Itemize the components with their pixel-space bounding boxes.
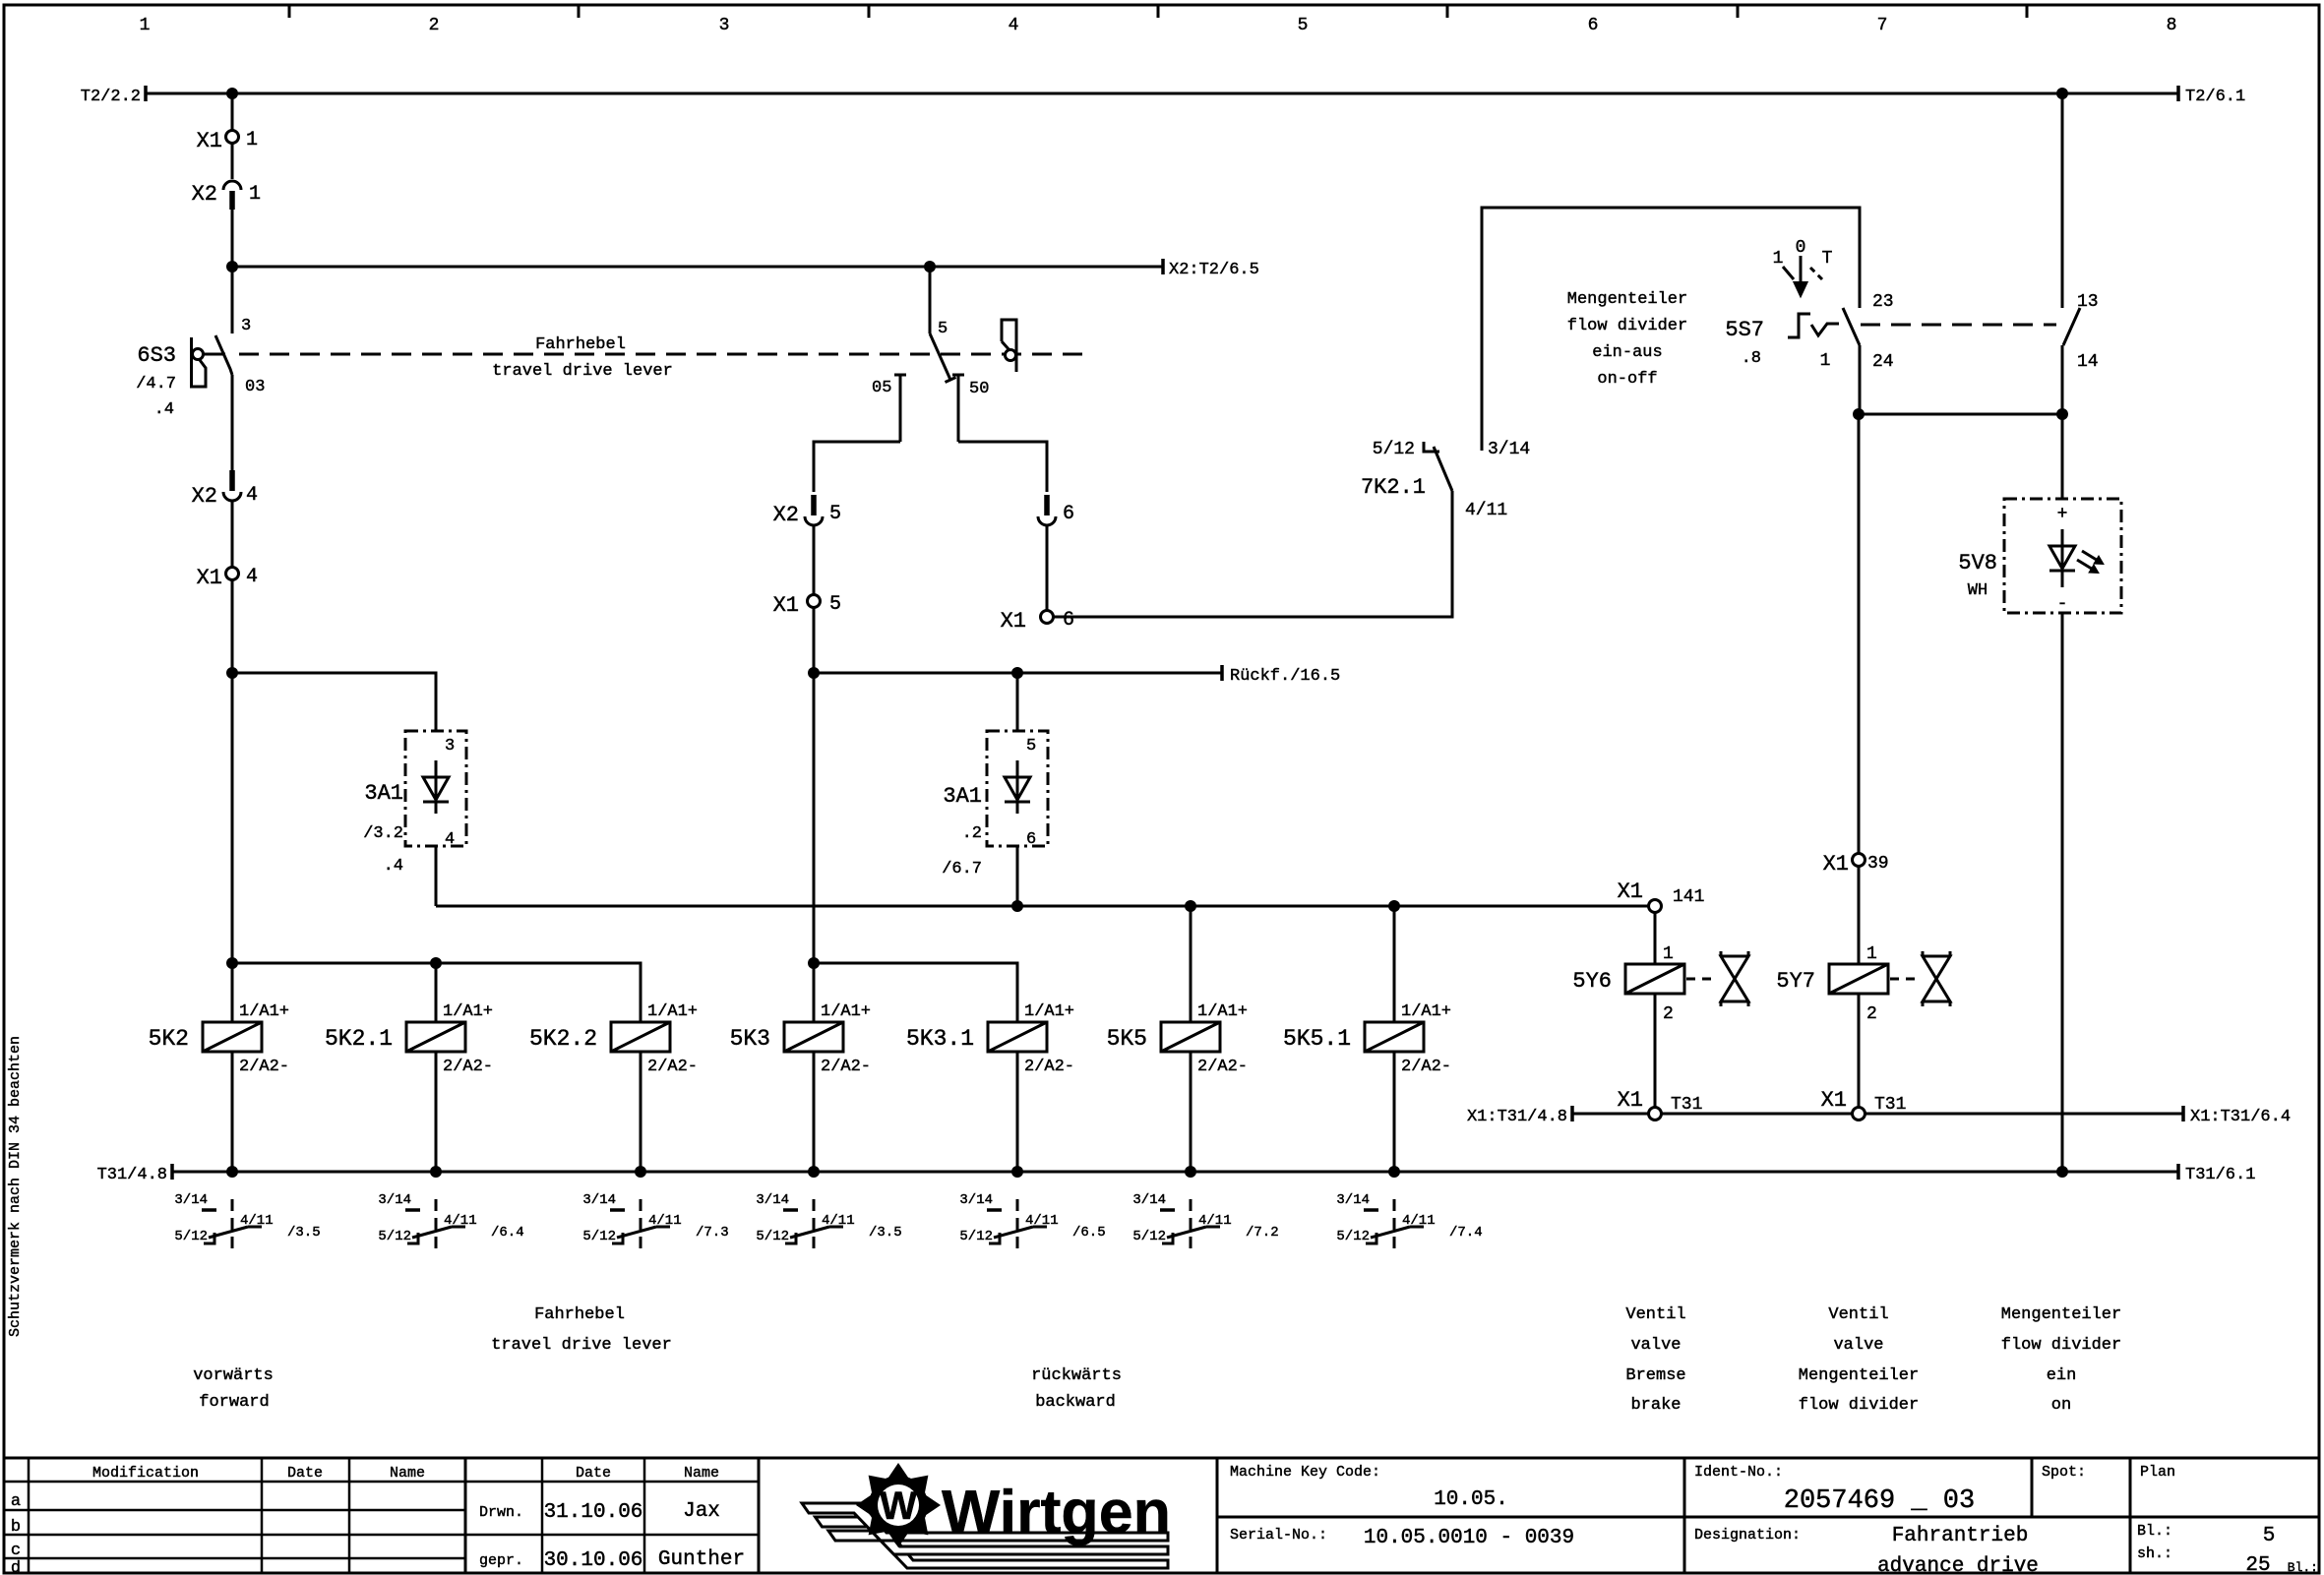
svg-text:Mengenteiler: Mengenteiler (2001, 1305, 2121, 1324)
svg-text:Date: Date (576, 1465, 611, 1482)
connector X2 pin 1 (192, 181, 261, 210)
svg-text:T31: T31 (1671, 1095, 1702, 1115)
svg-text:WH: WH (1968, 581, 1988, 600)
svg-text:.8: .8 (1742, 349, 1761, 368)
wire X2:T2/6.5 branch y=271 (232, 266, 1163, 269)
svg-text:3: 3 (445, 737, 455, 756)
wire contact 14 down to junction y=421 (2061, 345, 2064, 414)
svg-text:X2: X2 (192, 182, 217, 207)
svg-text:8: 8 (2167, 16, 2177, 35)
wire 5Y6 pin2 down to X1:T31 (1654, 994, 1657, 1108)
wire relay bottom to T31 bus at x=651 (640, 1052, 642, 1172)
connector X1 pin T31 (5Y6) (1618, 1088, 1703, 1121)
svg-text:Bl.:: Bl.: (2137, 1523, 2172, 1540)
svg-text:10.05.0010 - 0039: 10.05.0010 - 0039 (1364, 1527, 1574, 1549)
node junction on T31 bus at x=1417 (1388, 1166, 1400, 1178)
svg-text:5/12: 5/12 (959, 1229, 993, 1244)
relay coil 5K5.1 (1283, 1002, 1451, 1076)
svg-text:Date: Date (287, 1465, 323, 1482)
svg-text:0: 0 (1796, 238, 1806, 258)
svg-text:X1: X1 (1618, 1088, 1643, 1113)
title block header labels (92, 1465, 719, 1482)
svg-text:X1: X1 (1821, 1088, 1847, 1113)
terminal T31/4.8 (97, 1164, 172, 1184)
auxiliary contact cross-reference for relay at x=651 (/7.3) (582, 1192, 728, 1255)
relay coil 5K5 (1107, 1002, 1248, 1076)
terminal Rueckf./16.5 (1222, 665, 1340, 686)
svg-text:30.10.06: 30.10.06 (544, 1549, 643, 1572)
wire 50 to X2:6 (958, 442, 1047, 492)
svg-text:X1: X1 (773, 593, 799, 618)
svg-text:1/A1+: 1/A1+ (647, 1002, 698, 1021)
svg-text:5K5.1: 5K5.1 (1283, 1026, 1351, 1052)
selector switch 5S7 position arrow (1773, 238, 1833, 296)
svg-text:/3.2: /3.2 (363, 824, 403, 843)
wire 5V8 cathode down to T31 bus (2061, 613, 2064, 1172)
wire relay bottom to T31 bus at x=1210 (1190, 1052, 1193, 1172)
svg-text:Jax: Jax (683, 1500, 720, 1523)
svg-text:5: 5 (938, 320, 948, 338)
svg-text:1: 1 (1820, 351, 1831, 371)
svg-text:7K2.1: 7K2.1 (1361, 475, 1426, 500)
wire X2:5 to X1:5 (813, 525, 816, 594)
wire junction (236,684) to diode 3A1 top (232, 673, 436, 731)
relay coil 5K3.1 (906, 1002, 1074, 1076)
wire junction (2096,421) down to 5V8 (2061, 414, 2064, 499)
svg-text:.4: .4 (154, 400, 174, 419)
svg-text:Ventil: Ventil (1828, 1305, 1888, 1324)
svg-text:Mengenteiler: Mengenteiler (1799, 1366, 1919, 1385)
svg-text:5: 5 (829, 593, 841, 616)
node junction at (236,271) (226, 261, 238, 273)
node junction at (1034,921) (1011, 900, 1023, 912)
svg-text:3/14: 3/14 (1336, 1192, 1370, 1208)
connector X1 pin 1 (197, 129, 258, 153)
svg-text:brake: brake (1630, 1396, 1681, 1415)
svg-text:5/12: 5/12 (1373, 440, 1415, 459)
relay contact 7K2.1 (NO) (1361, 440, 1507, 520)
svg-text:5Y7: 5Y7 (1776, 969, 1815, 994)
diode inside 3A1 (5/6) (1016, 760, 1019, 814)
diode inside 3A1 (3/4) (435, 760, 438, 814)
svg-text:4/11: 4/11 (1465, 501, 1507, 520)
svg-text:1/A1+: 1/A1+ (1197, 1002, 1248, 1021)
label rueckwaerts backward (1031, 1366, 1122, 1412)
column numbers 1-8 (140, 16, 2177, 35)
wire 6S3 to X2:4 (231, 375, 234, 470)
svg-text:X1: X1 (1823, 852, 1849, 877)
svg-text:.2: .2 (962, 824, 982, 843)
wire T2 bus down to contact 13 (2061, 93, 2064, 308)
connector X1 pin 4 (197, 566, 258, 590)
svg-text:6: 6 (1063, 609, 1074, 632)
svg-text:4: 4 (445, 830, 455, 849)
svg-text:5S7: 5S7 (1725, 318, 1764, 342)
svg-text:Serial-No.:: Serial-No.: (1230, 1527, 1327, 1544)
svg-text:5: 5 (1298, 16, 1309, 35)
svg-text:T31/6.1: T31/6.1 (2185, 1166, 2255, 1184)
svg-text:5/12: 5/12 (1336, 1229, 1370, 1244)
wire x=236 from T2 bus to X1:1 (231, 93, 234, 130)
svg-text:6S3: 6S3 (137, 343, 176, 368)
svg-text:4: 4 (246, 484, 258, 507)
svg-text:5/12: 5/12 (174, 1229, 208, 1244)
svg-text:6: 6 (1063, 503, 1074, 525)
column ruler ticks (289, 5, 2027, 18)
wire 5K5 top feed (1190, 906, 1193, 1022)
title block machine key code (1230, 1464, 1508, 1511)
svg-text:flow divider: flow divider (2001, 1336, 2121, 1355)
hydraulic valve symbol for 5Y6 (1721, 951, 1748, 1006)
wire X2:6 to X1:6 (1046, 525, 1049, 610)
diode module 3A1 pins 5-6 (987, 731, 1048, 849)
svg-text:d: d (11, 1559, 21, 1575)
auxiliary contact cross-reference for relay at x=1417 (/7.4) (1336, 1192, 1482, 1255)
svg-text:4/11: 4/11 (444, 1213, 477, 1229)
svg-text:gepr.: gepr. (479, 1552, 523, 1569)
svg-text:1/A1+: 1/A1+ (239, 1002, 289, 1021)
svg-text:3: 3 (241, 317, 251, 335)
svg-text:3/14: 3/14 (1132, 1192, 1166, 1208)
Wirtgen logo swoosh stripes (802, 1503, 1168, 1568)
switch 5S7 contact 23/24 (1843, 292, 1894, 372)
svg-text:Ident-No.:: Ident-No.: (1694, 1464, 1783, 1481)
svg-text:flow divider: flow divider (1799, 1396, 1919, 1415)
svg-text:flow divider: flow divider (1567, 317, 1687, 335)
svg-text:05: 05 (872, 379, 891, 397)
svg-text:5Y6: 5Y6 (1572, 969, 1612, 994)
connector X2 pin 5 (773, 495, 841, 527)
wire junction (1034,684) to diode 3A1 (5/6) top (1016, 673, 1019, 731)
svg-text:3/14: 3/14 (756, 1192, 789, 1208)
svg-text:5K3: 5K3 (730, 1026, 770, 1052)
svg-text:X1:T31/6.4: X1:T31/6.4 (2190, 1108, 2291, 1126)
svg-text:5: 5 (1026, 737, 1036, 756)
wire bracket from 7K2.1 3/14 up and over to 5S7 contact 23 (1482, 208, 1860, 451)
svg-text:1/A1+: 1/A1+ (1024, 1002, 1074, 1021)
svg-text:25: 25 (2245, 1554, 2270, 1575)
svg-text:5K2.1: 5K2.1 (325, 1026, 393, 1052)
switch 5S7 contact 13/14 (2063, 292, 2099, 372)
svg-text:/3.5: /3.5 (869, 1225, 902, 1241)
terminal T2/2.2 (81, 86, 146, 106)
svg-text:4: 4 (1009, 16, 1019, 35)
svg-text:on-off: on-off (1597, 370, 1657, 389)
svg-text:39: 39 (1867, 854, 1889, 874)
wire junction (1889,421) down to X1:39 (1858, 414, 1861, 854)
title block grid (4, 1458, 2319, 1573)
wire rail y=979 feeding 5K2/5K2.1/5K2.2 (232, 963, 641, 1022)
svg-text:travel drive lever: travel drive lever (492, 362, 673, 381)
node junction at (1417,921) (1388, 900, 1400, 912)
auxiliary contact cross-reference for relay at x=827 (/3.5) (756, 1192, 901, 1255)
svg-text:Bremse: Bremse (1625, 1366, 1685, 1385)
label 5V8 WH (1958, 551, 1997, 600)
auxiliary contact cross-reference for relay at x=443 (/6.4) (378, 1192, 523, 1255)
svg-text:Rückf./16.5: Rückf./16.5 (1230, 667, 1340, 686)
node junction on T31 bus at x=1210 (1185, 1166, 1196, 1178)
svg-text:4/11: 4/11 (240, 1213, 274, 1229)
svg-text:c: c (11, 1542, 21, 1560)
svg-text:X1: X1 (197, 566, 222, 590)
svg-text:rückwärts: rückwärts (1031, 1366, 1122, 1385)
svg-text:W: W (880, 1484, 917, 1528)
node junction at (827,684) (808, 667, 820, 679)
wire 5Y7 pin2 down to X1:T31 (1858, 994, 1861, 1108)
connector X2 pin 4 (192, 470, 258, 509)
wire rail y=921 from diode output to X1:141 (436, 905, 1649, 908)
svg-text:X1: X1 (1618, 879, 1643, 904)
connector X1 pin 39 (1823, 852, 1889, 877)
svg-text:2/A2-: 2/A2- (1024, 1058, 1074, 1076)
svg-text:4/11: 4/11 (1025, 1213, 1059, 1229)
switch 5S7 label (1725, 318, 1764, 368)
svg-text:+: + (2057, 505, 2068, 524)
svg-text:2/A2-: 2/A2- (647, 1058, 698, 1076)
svg-text:Wirtgen: Wirtgen (942, 1479, 1171, 1546)
svg-text:T31: T31 (1874, 1095, 1906, 1115)
svg-text:T31/4.8: T31/4.8 (97, 1166, 167, 1184)
indicator lamp 5V8 module box (2004, 499, 2121, 613)
switch 6S3 contact (travel lever forward) (136, 317, 265, 419)
node junction on T31 bus at x=236 (226, 1166, 238, 1178)
diode module 3A1 pins 3-4 (405, 731, 466, 849)
title block serial no (1230, 1527, 1574, 1549)
node junction at (945,271) (924, 261, 936, 273)
svg-text:5/12: 5/12 (1132, 1229, 1166, 1244)
svg-text:ein-aus: ein-aus (1592, 343, 1662, 362)
5S7 maintained-position latch symbol (1788, 314, 1839, 337)
svg-text:X1:T31/4.8: X1:T31/4.8 (1467, 1108, 1567, 1126)
svg-text:Spot:: Spot: (2042, 1464, 2086, 1481)
wire Rueckf./16.5 y=684 (814, 672, 1222, 675)
valve solenoid coil 5Y6 (1572, 964, 1684, 994)
wire 3A1 pin6 down to y=921 rail (1016, 846, 1019, 906)
svg-text:Fahrhebel: Fahrhebel (534, 1305, 625, 1324)
svg-text:3A1: 3A1 (364, 781, 403, 806)
svg-text:Bl.:: Bl.: (2288, 1560, 2318, 1575)
wire 3A1 pin4 down to y=921 rail (435, 846, 438, 906)
label Ventil valve Bremse brake (1625, 1305, 1685, 1415)
svg-text:2/A2-: 2/A2- (821, 1058, 871, 1076)
svg-text:2057469 _ 03: 2057469 _ 03 (1784, 1486, 1975, 1516)
relay coil 5K3 (730, 1002, 871, 1076)
node junction at (443,979) (430, 957, 442, 969)
svg-text:Modification: Modification (92, 1465, 199, 1482)
wire relay bottom to T31 bus at x=827 (813, 1052, 816, 1172)
svg-text:5: 5 (829, 503, 841, 525)
label Fahrhebel / travel drive lever (function row) (491, 1305, 672, 1355)
svg-text:sh.:: sh.: (2137, 1545, 2172, 1562)
svg-text:4/11: 4/11 (822, 1213, 855, 1229)
connector X1 pin T31 (5Y7) (1821, 1088, 1907, 1121)
svg-text:X1: X1 (197, 129, 222, 153)
node junction at (236,684) (226, 667, 238, 679)
svg-text:141: 141 (1673, 887, 1704, 907)
label vorwaerts forward (193, 1366, 274, 1412)
detent actuator flag on linkage (1002, 320, 1016, 372)
svg-text:1/A1+: 1/A1+ (443, 1002, 493, 1021)
svg-text:Fahrhebel: Fahrhebel (535, 335, 626, 354)
svg-text:ein: ein (2047, 1366, 2077, 1385)
terminal X1:T31/4.8 (1467, 1106, 1572, 1126)
svg-text:1: 1 (1866, 944, 1877, 964)
relay coil 5K2 (149, 1002, 289, 1076)
svg-text:5/12: 5/12 (378, 1229, 411, 1244)
svg-text:/3.5: /3.5 (287, 1225, 321, 1241)
svg-text:T: T (1822, 249, 1833, 269)
svg-text:1: 1 (1663, 944, 1674, 964)
svg-text:/4.7: /4.7 (136, 375, 176, 394)
node junction at (1034,684) (1011, 667, 1023, 679)
svg-text:3/14: 3/14 (378, 1192, 411, 1208)
svg-text:14: 14 (2077, 352, 2099, 372)
svg-text:5: 5 (2263, 1525, 2276, 1547)
svg-text:1: 1 (249, 183, 261, 206)
wire contact 24 down to junction y=421 (1859, 345, 1862, 414)
svg-text:5/12: 5/12 (756, 1229, 789, 1244)
svg-text:Name: Name (390, 1465, 425, 1482)
svg-text:4/11: 4/11 (1402, 1213, 1436, 1229)
svg-text:4: 4 (246, 566, 258, 588)
label Mengenteiler flow divider ein on (2001, 1305, 2121, 1415)
svg-text:X2: X2 (773, 503, 799, 527)
svg-text:travel drive lever: travel drive lever (491, 1336, 672, 1355)
valve solenoid coil 5Y7 (1776, 964, 1888, 994)
svg-text:1: 1 (1773, 249, 1784, 269)
wire X1:141 to valve coil 5Y6 (1654, 913, 1657, 965)
connector X1 pin 6 (1001, 609, 1074, 634)
svg-text:2/A2-: 2/A2- (1197, 1058, 1248, 1076)
svg-text:T2/6.1: T2/6.1 (2185, 88, 2245, 106)
svg-text:Machine Key Code:: Machine Key Code: (1230, 1464, 1380, 1481)
terminal T31/6.1 (2178, 1164, 2255, 1184)
terminal T2/6.1 (2178, 86, 2245, 106)
label Mengenteiler flow divider ein-aus on-off (1567, 290, 1687, 389)
wire relay bottom to T31 bus at x=443 (435, 1052, 438, 1172)
wire X1:39 to valve coil 5Y7 (1858, 867, 1861, 964)
node junction on T31 bus at x=1034 (1011, 1166, 1023, 1178)
node junction on T31 bus at x=827 (808, 1166, 820, 1178)
label 3A1 .2 /6.7 (942, 784, 982, 878)
svg-text:6: 6 (1588, 16, 1599, 35)
svg-text:backward: backward (1035, 1393, 1116, 1412)
svg-text:on: on (2051, 1396, 2071, 1415)
svg-text:31.10.06: 31.10.06 (544, 1501, 643, 1524)
node junction on T31 bus at x=2096 (2056, 1166, 2068, 1178)
svg-text:24: 24 (1872, 352, 1894, 372)
LED symbol 5V8 (2049, 529, 2104, 587)
title block row letters a b c d (11, 1492, 21, 1575)
wire relay bottom to T31 bus at x=1034 (1016, 1052, 1019, 1172)
svg-text:2/A2-: 2/A2- (1401, 1058, 1451, 1076)
mechanical linkage dashed line Fahrhebel (239, 353, 1082, 356)
connector X1 pin 141 (1618, 879, 1705, 913)
svg-text:03: 03 (245, 378, 265, 396)
switch contact 5 (travel lever backward) with moving arm (930, 320, 956, 383)
svg-text:Schutzvermerk nach DIN 34 beac: Schutzvermerk nach DIN 34 beachten (7, 1036, 24, 1337)
svg-text:2: 2 (1866, 1004, 1877, 1024)
terminal X1:T31/6.4 (2183, 1106, 2291, 1126)
svg-text:5K2: 5K2 (149, 1026, 189, 1052)
svg-text:23: 23 (1872, 292, 1894, 312)
node junction on T31 bus at x=651 (635, 1166, 646, 1178)
svg-text:2: 2 (1663, 1004, 1674, 1024)
node junction T2 bus at x=236 (226, 88, 238, 99)
svg-text:3/14: 3/14 (959, 1192, 993, 1208)
wire link y=421 between contacts (1859, 413, 2062, 416)
svg-text:3/14: 3/14 (582, 1192, 616, 1208)
svg-text:4/11: 4/11 (1198, 1213, 1232, 1229)
svg-text:.4: .4 (384, 857, 403, 876)
svg-text:Ventil: Ventil (1625, 1305, 1685, 1324)
wire X1:T31 rail y=1132 (1572, 1113, 2183, 1116)
title block drawn/checked rows (479, 1500, 745, 1572)
node junction at (1210,921) (1185, 900, 1196, 912)
label Ventil valve Mengenteiler flow divider (1799, 1305, 1919, 1415)
connector X1 pin 5 (773, 593, 841, 618)
svg-text:1: 1 (140, 16, 151, 35)
svg-text:3A1: 3A1 (943, 784, 982, 809)
wire X1:6 to relay contact 7K2.1 (1054, 491, 1453, 617)
svg-text:1: 1 (246, 129, 258, 151)
relay coil 5K2.1 (325, 1002, 493, 1076)
svg-text:4/11: 4/11 (648, 1213, 682, 1229)
6S3 detent actuator flag (192, 337, 226, 387)
svg-text:/7.3: /7.3 (696, 1225, 729, 1241)
wire X2:1 down to switch 6S3 (231, 210, 234, 333)
svg-text:Designation:: Designation: (1694, 1527, 1801, 1544)
svg-text:/6.5: /6.5 (1072, 1225, 1106, 1241)
svg-text:forward: forward (199, 1393, 269, 1412)
svg-text:Mengenteiler: Mengenteiler (1567, 290, 1687, 309)
mechanical linkage dashed 5S7 (1861, 324, 2056, 327)
svg-text:b: b (11, 1518, 21, 1537)
wire relay bottom to T31 bus at x=1417 (1393, 1052, 1396, 1172)
wire from junction (945,271) to switch contact 5 (929, 267, 932, 333)
auxiliary contact cross-reference for relay at x=236 (/3.5) (174, 1192, 320, 1255)
label 3A1 /3.2 .4 (363, 781, 403, 876)
node junction at (827,979) (808, 957, 820, 969)
svg-text:3/14: 3/14 (174, 1192, 208, 1208)
svg-text:Plan: Plan (2140, 1464, 2175, 1481)
svg-text:advance drive: advance drive (1877, 1555, 2039, 1575)
wire 5K5.1 top feed (1393, 906, 1396, 1022)
svg-text:6: 6 (1026, 830, 1036, 849)
Wirtgen logo gear emblem (856, 1463, 941, 1547)
svg-text:5V8: 5V8 (1958, 551, 1997, 575)
svg-text:7: 7 (1877, 16, 1888, 35)
wire 5K2.1 top feed (435, 963, 438, 1022)
node junction at (236,979) (226, 957, 238, 969)
svg-text:valve: valve (1833, 1336, 1883, 1355)
svg-text:/7.2: /7.2 (1246, 1225, 1279, 1241)
wire 05 to X2:5 (814, 442, 900, 492)
svg-text:3/14: 3/14 (1488, 440, 1530, 459)
svg-text:/6.4: /6.4 (491, 1225, 524, 1241)
fixed contact 50 (952, 375, 989, 442)
svg-text:X2: X2 (192, 484, 217, 509)
svg-text:5/12: 5/12 (582, 1229, 616, 1244)
svg-text:a: a (11, 1492, 21, 1511)
title block designation (1694, 1525, 2039, 1575)
svg-text:2: 2 (429, 16, 440, 35)
svg-text:10.05.: 10.05. (1434, 1488, 1508, 1511)
svg-text:2/A2-: 2/A2- (239, 1058, 289, 1076)
dashed link 5Y7 to valve symbol (1890, 978, 1919, 981)
relay coil 5K2.2 (529, 1002, 698, 1076)
wire T2 bus y=95 (146, 92, 2178, 95)
